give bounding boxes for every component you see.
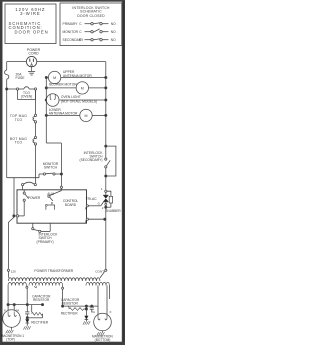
- svg-text:OVEN LIGHT: OVEN LIGHT: [61, 95, 81, 99]
- svg-text:NO: NO: [111, 38, 116, 42]
- svg-text:BLOWER MOTOR: BLOWER MOTOR: [49, 83, 77, 87]
- svg-text:NO: NO: [111, 22, 116, 26]
- svg-text:DOOR CLOSED: DOOR CLOSED: [77, 14, 105, 18]
- svg-text:M: M: [85, 114, 88, 118]
- svg-text:(BOTTOM): (BOTTOM): [95, 338, 111, 342]
- svg-text:SWITCH: SWITCH: [44, 166, 58, 170]
- svg-text:TRI-AC: TRI-AC: [86, 197, 98, 201]
- svg-text:RESISTOR: RESISTOR: [62, 302, 79, 306]
- svg-text:POWER: POWER: [28, 196, 41, 200]
- svg-text:M: M: [53, 76, 56, 80]
- svg-text:(NOT ON ALL MODELS): (NOT ON ALL MODELS): [61, 100, 97, 104]
- svg-text:BOARD: BOARD: [65, 203, 77, 207]
- svg-text:SCHEMATIC: SCHEMATIC: [80, 9, 102, 13]
- svg-text:NO: NO: [111, 30, 116, 34]
- svg-text:M: M: [81, 86, 84, 90]
- svg-text:RECTIFIER: RECTIFIER: [61, 311, 79, 315]
- svg-text:ANTENNA MOTOR: ANTENNA MOTOR: [63, 74, 92, 78]
- svg-text:FA: FA: [91, 310, 95, 314]
- svg-text:RECTIFIER: RECTIFIER: [31, 321, 49, 325]
- svg-text:TCO: TCO: [15, 118, 23, 122]
- svg-text:CORD: CORD: [28, 51, 39, 55]
- svg-text:TCO: TCO: [15, 141, 23, 145]
- svg-text:FUSE: FUSE: [16, 76, 26, 80]
- svg-text:F: F: [110, 310, 112, 314]
- svg-text:3-WIRE: 3-WIRE: [20, 11, 41, 16]
- svg-text:(SECONDARY): (SECONDARY): [79, 158, 102, 162]
- svg-text:SNUBBER: SNUBBER: [105, 209, 121, 213]
- svg-text:(PRIMARY): (PRIMARY): [37, 240, 54, 244]
- svg-text:(OVEN): (OVEN): [21, 95, 33, 99]
- svg-text:ANTENNA MOTOR: ANTENNA MOTOR: [49, 112, 78, 116]
- svg-text:DOOR OPEN: DOOR OPEN: [15, 29, 49, 34]
- svg-text:(TOP): (TOP): [6, 337, 15, 341]
- svg-text:PRIMARY: PRIMARY: [63, 22, 79, 26]
- svg-text:AUX: AUX: [47, 192, 55, 196]
- svg-text:CONT: CONT: [95, 269, 104, 273]
- svg-text:POWER TRANSFORMER: POWER TRANSFORMER: [34, 269, 73, 273]
- svg-text:MONITOR: MONITOR: [63, 30, 79, 34]
- svg-text:RESISTOR: RESISTOR: [33, 298, 50, 302]
- svg-text:120: 120: [11, 270, 16, 274]
